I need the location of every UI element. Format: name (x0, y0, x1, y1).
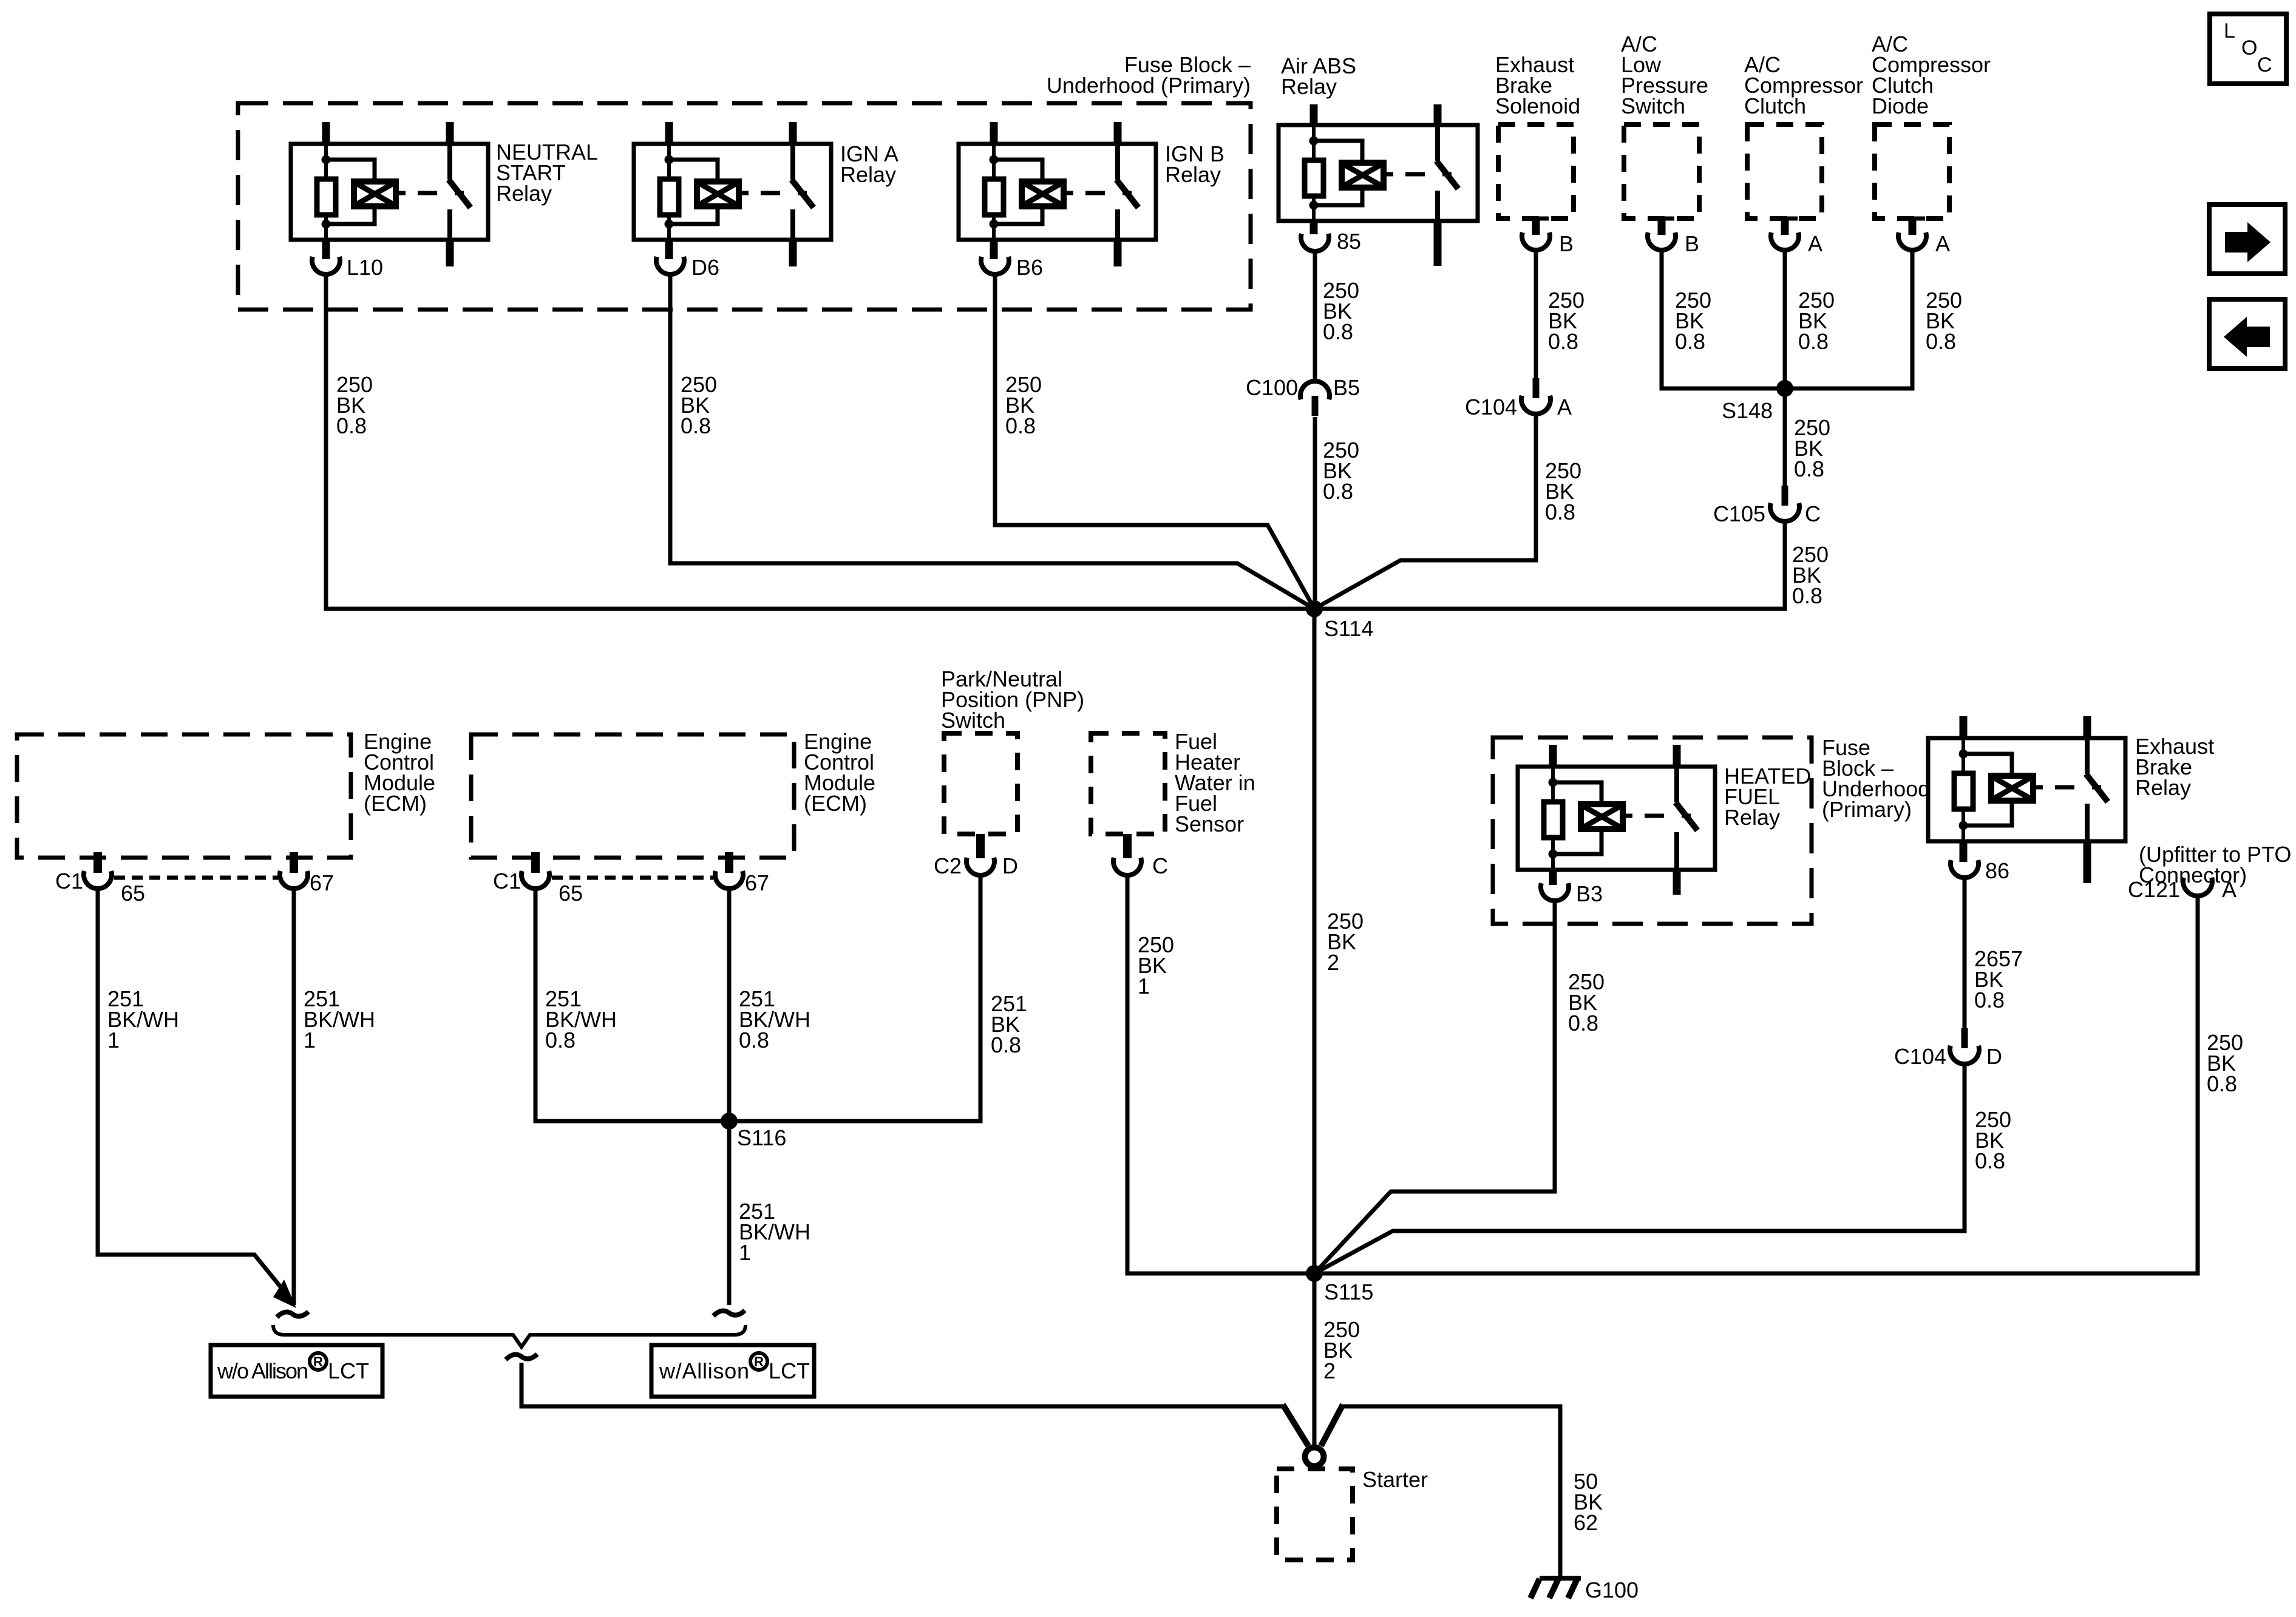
connector pin B of exhaust brake solenoid (1522, 217, 1550, 251)
svg-text:67: 67 (745, 870, 769, 895)
inline connector C105 C (1770, 486, 1799, 521)
label D6 (691, 255, 719, 280)
svg-text:0.8: 0.8 (545, 1028, 576, 1053)
relay K6 Exhaust Brake Relay (1928, 716, 2125, 883)
label Exhaust Brake Solenoid (1495, 52, 1580, 118)
wire S148 to C105 (1783, 388, 1787, 486)
LOC reference box (2210, 14, 2286, 84)
svg-text:(ECM): (ECM) (364, 791, 427, 816)
PNP switch dashed box (944, 733, 1017, 834)
wire ECM1 67 down (292, 889, 296, 1305)
connector face dotted line ECM1 (114, 876, 278, 880)
label A c121 (2222, 877, 2237, 902)
svg-text:Switch: Switch (941, 708, 1005, 733)
label 67 ecm1 (310, 870, 334, 895)
label IGN A Relay (840, 141, 898, 187)
starter dashed box (1277, 1469, 1353, 1560)
svg-text:65: 65 (559, 881, 583, 906)
ECM1 dashed box (17, 734, 351, 858)
fuel heater sensor dashed box (1091, 733, 1165, 834)
connector pin B of AC low pressure switch (1648, 217, 1676, 251)
label 250 BK 0.8 B6 (1005, 372, 1042, 438)
svg-text:Starter: Starter (1362, 1467, 1428, 1492)
svg-text:Relay: Relay (1165, 162, 1221, 187)
component dashed box A/C Compressor Clutch (1747, 124, 1822, 219)
svg-text:86: 86 (1985, 858, 2009, 883)
svg-text:C: C (1805, 501, 1821, 526)
label C fuel (1152, 853, 1168, 878)
connector pin B3 (1541, 883, 1569, 901)
svg-text:D: D (1002, 853, 1018, 878)
w/o Allison LCT box (211, 1345, 382, 1397)
label 50 BK 62 (1574, 1469, 1603, 1535)
wire right branch to ground (1342, 1406, 1560, 1578)
label G100 (1585, 1578, 1639, 1602)
svg-text:L10: L10 (347, 255, 383, 280)
svg-text:S114: S114 (1324, 616, 1373, 641)
svg-text:0.8: 0.8 (1005, 413, 1036, 438)
svg-text:C1: C1 (55, 869, 83, 893)
svg-text:A: A (1935, 231, 1950, 256)
svg-text:Relay: Relay (2135, 775, 2191, 800)
wire ECM1 65 down (98, 889, 294, 1303)
svg-text:0.8: 0.8 (1798, 329, 1829, 354)
svg-text:C121: C121 (2128, 877, 2180, 902)
label C121 (2128, 877, 2180, 902)
wire C105 to S114 (1314, 521, 1785, 609)
arrowhead ecm1 65 (273, 1280, 296, 1308)
svg-text:S148: S148 (1722, 398, 1773, 423)
label C1 ecm2 (493, 869, 521, 893)
svg-text:1: 1 (107, 1028, 120, 1053)
svg-text:85: 85 (1337, 229, 1361, 254)
svg-text:Diode: Diode (1872, 93, 1929, 118)
svg-text:L: L (2224, 19, 2235, 42)
label 250 BK 0.8 acc (1798, 288, 1835, 354)
svg-text:D: D (1986, 1044, 2002, 1069)
label A/C Compressor Clutch (1744, 52, 1863, 118)
splice S148 (1776, 380, 1793, 397)
label B3 (1576, 881, 1603, 906)
svg-text:S116: S116 (737, 1125, 786, 1150)
svg-text:0.8: 0.8 (1675, 329, 1705, 354)
connector pin 67 ECM1 (280, 852, 308, 889)
label 67 ecm2 (745, 870, 769, 895)
svg-text:2: 2 (1323, 1358, 1336, 1383)
label Fuse Block Underhood Primary 2 (1822, 735, 1930, 822)
label w/o Allison LCT (217, 1353, 369, 1383)
wire fuel sensor to S115 (1127, 876, 1314, 1273)
relay K2 IGN A Relay (634, 122, 831, 266)
connector pin 67 ECM2 (715, 852, 743, 889)
svg-text:0.8: 0.8 (1548, 329, 1578, 354)
label 250 BK 0.8 D6 (681, 372, 717, 438)
label C c105 (1805, 501, 1821, 526)
label 250 BK 0.8 c100 (1323, 438, 1359, 504)
wire C100 to S114 (1313, 417, 1317, 609)
svg-text:C100: C100 (1246, 375, 1298, 400)
label 250 BK 0.8 b3 (1568, 969, 1605, 1036)
svg-text:0.8: 0.8 (1974, 988, 2005, 1012)
wire B3 to S115 (1314, 901, 1555, 1273)
w/Allison LCT box (651, 1345, 814, 1397)
svg-text:0.8: 0.8 (2207, 1071, 2237, 1096)
svg-text:B3: B3 (1576, 881, 1603, 906)
label B2 (1685, 231, 1699, 256)
label NEUTRAL START Relay (496, 140, 598, 206)
label 251 BK/WH 0.8 ecm2-67 (739, 986, 810, 1053)
component dashed box A/C Compressor Clutch Diode (1875, 124, 1949, 219)
label HEATED FUEL Relay (1724, 764, 1811, 830)
connector pin A of AC compressor clutch (1771, 217, 1799, 251)
svg-text:B5: B5 (1333, 375, 1360, 400)
starter terminal circle (1305, 1448, 1324, 1466)
label Fuse Block - Underhood (Primary) (1047, 52, 1251, 98)
svg-text:0.8: 0.8 (1794, 456, 1824, 481)
label 250 BK 0.8 diode (1926, 288, 1962, 354)
svg-text:B6: B6 (1016, 255, 1043, 280)
connector pin C fuel sensor (1113, 834, 1141, 875)
ground G100 (1530, 1578, 1581, 1598)
wire ECM2 65 down (535, 889, 729, 1121)
wire C104 A to S114 (1314, 414, 1536, 609)
arrow box left (2209, 299, 2285, 368)
label S115 (1324, 1280, 1373, 1304)
label A (1808, 231, 1822, 256)
svg-text:R: R (313, 1354, 323, 1369)
label Engine Control Module ECM 1 (364, 729, 435, 816)
label Park/Neutral Position (PNP) Switch (941, 666, 1084, 733)
connector pin 85 (1301, 234, 1329, 251)
label 251 BK 0.8 pnp (991, 991, 1027, 1057)
fuse block underhood primary dashed box (238, 103, 1251, 310)
svg-text:LCT: LCT (769, 1358, 810, 1383)
label Engine Control Module ECM 2 (804, 729, 875, 816)
connector pin A of AC compressor clutch diode (1898, 217, 1926, 251)
wire solenoid B to C104 (1534, 249, 1538, 378)
label 85 (1337, 229, 1361, 254)
svg-text:(Primary): (Primary) (1822, 797, 1912, 822)
wire 86 to C104D (1963, 878, 1967, 1028)
label C104 (1465, 395, 1517, 419)
svg-text:S115: S115 (1324, 1280, 1373, 1304)
label C2 (934, 853, 962, 878)
connector pin B6 (981, 257, 1009, 274)
svg-text:Solenoid: Solenoid (1495, 93, 1580, 118)
svg-text:C2: C2 (934, 853, 962, 878)
svg-text:65: 65 (121, 881, 145, 906)
relay K4 Air ABS Relay (1279, 104, 1478, 266)
label C1 ecm1 (55, 869, 83, 893)
connector pin C2 D (966, 834, 994, 875)
label 250 BK 2 middle (1327, 909, 1364, 975)
connector pin L10 (312, 257, 340, 274)
label C100 (1246, 375, 1298, 400)
svg-text:Relay: Relay (1724, 805, 1780, 830)
label 65 ecm2 (559, 881, 583, 906)
label 65 ecm1 (121, 881, 145, 906)
svg-text:C: C (2257, 53, 2272, 76)
svg-text:R: R (754, 1354, 764, 1369)
svg-text:w/o Allison: w/o Allison (217, 1358, 308, 1383)
svg-text:Sensor: Sensor (1175, 812, 1244, 836)
label 2657 BK 0.8 (1974, 946, 2023, 1012)
brace selector (273, 1325, 746, 1347)
connector pin D6 (656, 257, 684, 274)
svg-text:B: B (1559, 231, 1574, 256)
svg-text:Underhood (Primary): Underhood (Primary) (1047, 73, 1251, 98)
svg-text:0.8: 0.8 (1323, 479, 1353, 504)
component dashed box A/C Low Pressure Switch (1624, 124, 1699, 219)
wire C104 D to S115 (1314, 1064, 1965, 1273)
inline connector C104 D (1950, 1028, 1979, 1064)
relay K5 HEATED FUEL Relay (1518, 745, 1715, 895)
svg-text:1: 1 (304, 1028, 316, 1053)
label 250 BK 0.8 c104d (1975, 1107, 2011, 1173)
break symbol s116 wire (713, 1310, 745, 1316)
splice S115 (1306, 1265, 1323, 1282)
label 250 BK 0.8 c104a (1545, 458, 1581, 524)
wire S116 down (727, 1121, 732, 1305)
label 250 BK 0.8 L10 (336, 372, 373, 438)
label A/C Compressor Clutch Diode (1872, 32, 1991, 118)
label 251 BK/WH 1 ecm1-65 (107, 986, 179, 1053)
svg-text:LCT: LCT (328, 1358, 369, 1383)
label Exhaust Brake Relay (2135, 734, 2214, 800)
break symbol left wires (277, 1312, 308, 1317)
svg-text:C104: C104 (1465, 395, 1517, 419)
label w/Allison LCT (659, 1353, 810, 1383)
label 250 BK 0.8 s148 (1794, 415, 1830, 481)
label Upfitter to PTO Connector (2139, 842, 2291, 887)
label B6 (1016, 255, 1043, 280)
svg-text:C: C (1152, 853, 1168, 878)
splice S114 (1306, 600, 1323, 617)
wire brace to starter (521, 1363, 1308, 1446)
label S148 (1722, 398, 1773, 423)
svg-text:2: 2 (1327, 950, 1339, 975)
label A c104 (1557, 395, 1572, 419)
splice S116 (721, 1113, 738, 1130)
svg-text:O: O (2241, 36, 2257, 59)
label 250 BK 0.8 lps (1675, 288, 1711, 354)
break symbol below brace (506, 1354, 537, 1360)
wire C121 to S115 (1314, 896, 2198, 1273)
component dashed box Exhaust Brake Solenoid (1498, 124, 1574, 219)
inline connector C100 B5 (1300, 381, 1330, 416)
label 250 BK 0.8 abs (1323, 278, 1359, 344)
wire diagonal into starter right (1321, 1405, 1343, 1446)
label IGN B Relay (1165, 141, 1224, 187)
svg-text:Relay: Relay (840, 162, 896, 187)
wire AC diode A to S148 (1785, 249, 1912, 388)
svg-text:D6: D6 (691, 255, 719, 280)
connector pin 65 ECM1 (84, 852, 112, 889)
inline connector C104 A (1521, 378, 1550, 414)
svg-text:0.8: 0.8 (991, 1032, 1021, 1057)
svg-text:1: 1 (1138, 974, 1150, 998)
label 251 BK/WH 0.8 ecm2-65 (545, 986, 617, 1053)
label 251 BK/WH 1 s116 (739, 1199, 810, 1265)
svg-text:Clutch: Clutch (1744, 93, 1806, 118)
svg-text:0.8: 0.8 (1545, 500, 1575, 524)
wire S115 to starter (1313, 1273, 1317, 1447)
svg-text:0.8: 0.8 (1926, 329, 1956, 354)
label S116 (737, 1125, 786, 1150)
label C104 d (1894, 1044, 1946, 1069)
wire AC LPS B to S148 (1662, 249, 1785, 388)
ECM2 dashed box (471, 734, 794, 858)
label 86 (1985, 858, 2009, 883)
label 250 BK 0.8 c105 (1792, 542, 1829, 608)
connector pin 86 (1951, 860, 1978, 878)
svg-text:Switch: Switch (1621, 93, 1685, 118)
label C105 (1713, 501, 1765, 526)
label Starter (1362, 1467, 1428, 1492)
label L10 (347, 255, 383, 280)
svg-text:C104: C104 (1894, 1044, 1946, 1069)
svg-text:C1: C1 (493, 869, 521, 893)
connector pin 65 ECM2 (521, 852, 549, 889)
svg-text:0.8: 0.8 (739, 1028, 769, 1053)
label D c104 (1986, 1044, 2002, 1069)
svg-text:67: 67 (310, 870, 334, 895)
label 250 BK 2 starter (1323, 1317, 1360, 1383)
svg-text:(ECM): (ECM) (804, 791, 867, 816)
svg-text:0.8: 0.8 (1792, 583, 1822, 608)
label Air ABS Relay (1281, 53, 1356, 99)
svg-text:0.8: 0.8 (336, 413, 367, 438)
connector C121 A (2183, 878, 2212, 896)
wire 85 to C100 (1313, 251, 1317, 379)
wire PNP D down (729, 876, 980, 1121)
arrow box right (2209, 205, 2285, 274)
label B (1559, 231, 1574, 256)
label 250 BK 1 fuel (1138, 932, 1174, 998)
label B5 (1333, 375, 1360, 400)
svg-text:A: A (1557, 395, 1572, 419)
wire B6 to S114 (995, 274, 1314, 609)
svg-text:B: B (1685, 231, 1699, 256)
wire ECM2 67 down (727, 889, 732, 1121)
svg-text:1: 1 (739, 1240, 751, 1265)
wire S114 to S115 (1313, 609, 1317, 1273)
label Fuel Heater Water in Fuel Sensor (1175, 729, 1255, 836)
relay K1 NEUTRAL START Relay (291, 122, 488, 266)
svg-text:0.8: 0.8 (681, 413, 711, 438)
svg-text:62: 62 (1574, 1510, 1598, 1535)
wire D6 to S114 (670, 274, 1314, 609)
svg-text:w/Allison: w/Allison (659, 1358, 749, 1383)
label A/C Low Pressure Switch (1621, 32, 1708, 118)
label D pnp (1002, 853, 1018, 878)
wire L10 to S114 (326, 274, 1314, 609)
label 250 BK 0.8 c121 (2207, 1030, 2243, 1096)
svg-text:0.8: 0.8 (1975, 1148, 2005, 1173)
fuse block underhood primary 2 dashed box (1493, 737, 1812, 924)
svg-text:A: A (2222, 877, 2237, 902)
svg-text:Relay: Relay (496, 181, 552, 206)
connector face dotted line ECM2 (552, 876, 713, 880)
svg-text:0.8: 0.8 (1568, 1011, 1598, 1036)
wire AC clutch A to S148 (1783, 249, 1787, 388)
svg-text:A: A (1808, 231, 1822, 256)
label 250 BK 0.8 solenoid (1548, 288, 1584, 354)
svg-text:G100: G100 (1585, 1578, 1639, 1602)
label A2 (1935, 231, 1950, 256)
label 251 BK/WH 1 ecm1-67 (304, 986, 375, 1053)
svg-text:0.8: 0.8 (1323, 319, 1353, 344)
svg-text:C105: C105 (1713, 501, 1765, 526)
relay K3 IGN B Relay (959, 122, 1156, 266)
label S114 (1324, 616, 1373, 641)
svg-text:Relay: Relay (1281, 74, 1337, 99)
